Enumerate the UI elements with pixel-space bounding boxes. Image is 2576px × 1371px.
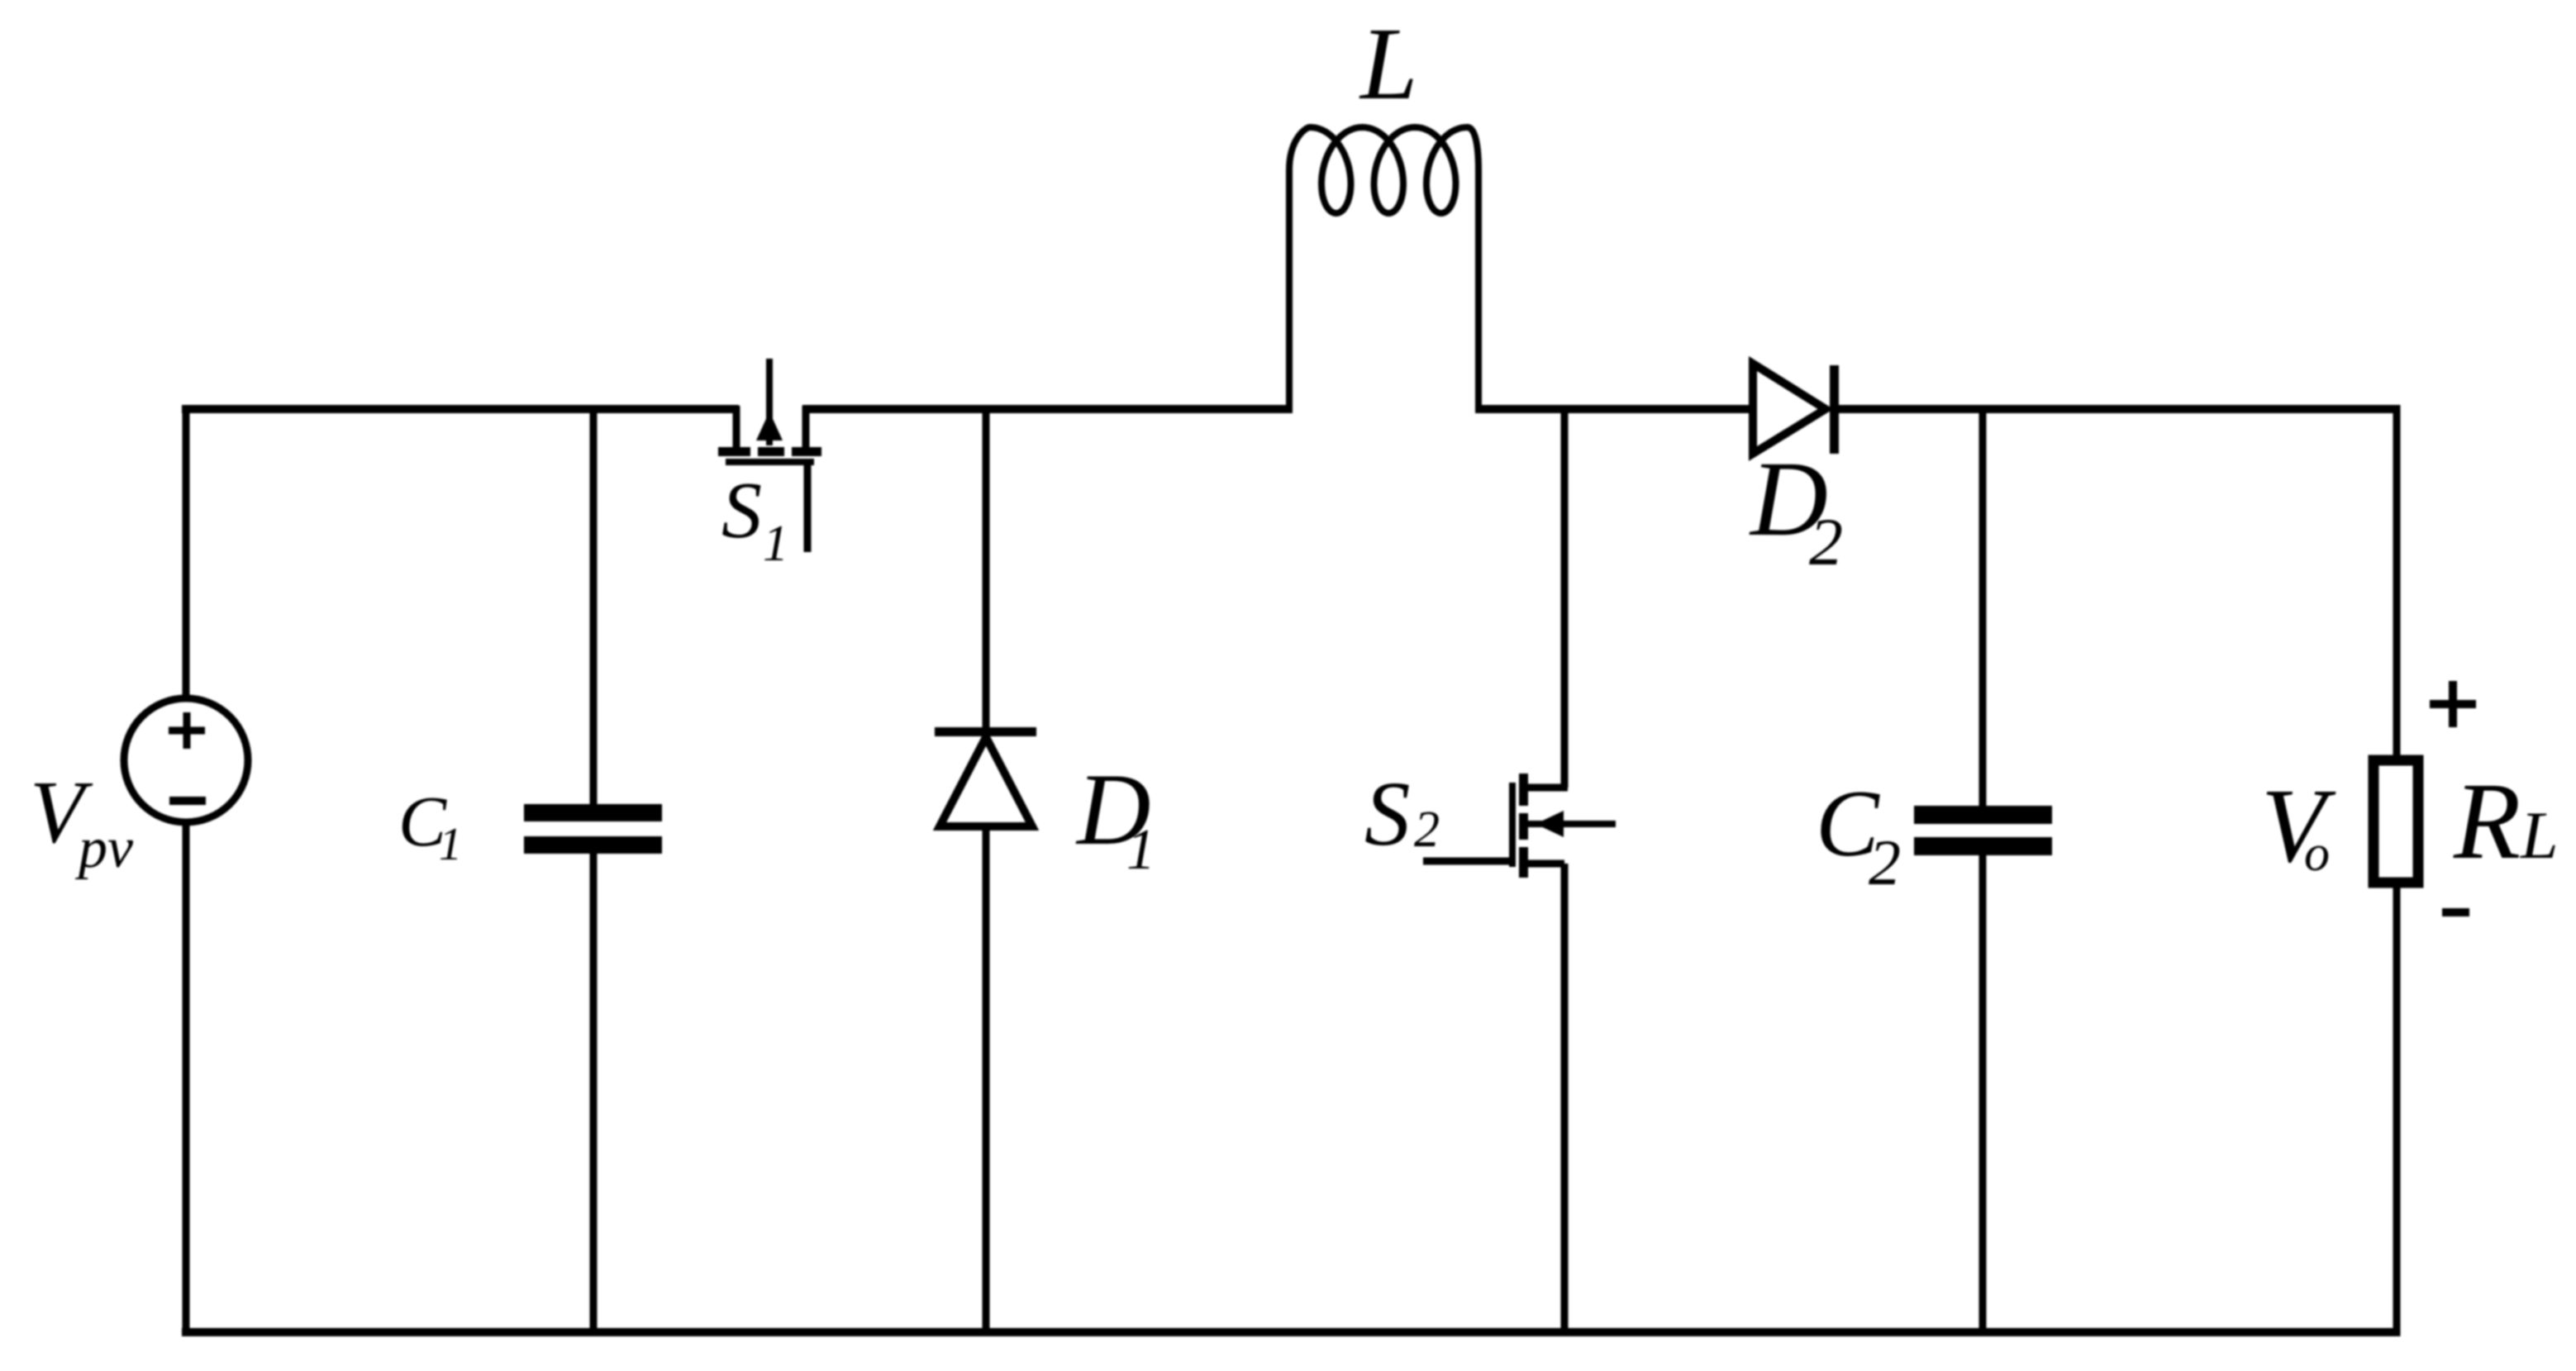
wire: C1 bottom lead to bottom rail <box>590 854 598 1336</box>
MOSFET S1 body arrow (points up) <box>756 412 783 440</box>
plus polarity mark at output <box>2430 681 2476 727</box>
diode D2 triangle (points right) <box>1753 364 1826 454</box>
svg-text:2: 2 <box>1869 826 1901 898</box>
diode D2 cathode bar <box>1830 365 1839 454</box>
wire: top rail segment from D2 cathode to output corner <box>1835 405 2397 413</box>
wire: top rail segment between inductor right leg and D2 anode <box>1477 405 1754 413</box>
wire: bottom return rail <box>182 1328 2397 1336</box>
inductor L (coil with three loops) <box>1289 127 1478 413</box>
svg-text:S: S <box>1364 764 1411 865</box>
label C2 <box>1816 771 1901 898</box>
wire: output branch bottom (load down to bottom rail corner) <box>2393 888 2401 1336</box>
MOSFET S2 channel bar (three segments) <box>1519 774 1528 878</box>
svg-text:o: o <box>2304 826 2330 882</box>
MOSFET S1 body stub line <box>766 359 773 445</box>
label D2 <box>1749 440 1843 579</box>
capacitor C2 (two plates) <box>1914 806 2052 855</box>
svg-text:pv: pv <box>74 816 134 880</box>
wire: C1 top lead from top rail <box>590 405 598 804</box>
MOSFET S1 gate bar <box>726 459 814 465</box>
label D1 <box>1075 753 1155 882</box>
plus polarity mark inside Vpv <box>169 712 205 749</box>
svg-text:L: L <box>2520 797 2559 873</box>
voltage source Vpv (circle) <box>124 698 248 822</box>
minus polarity mark at output <box>2442 908 2469 916</box>
wire: S2 source lead down to bottom rail <box>1561 864 1569 1336</box>
diode D1 triangle (points up) <box>940 737 1032 826</box>
wire: top rail, left segment (input node to S1 drain) <box>182 405 739 413</box>
MOSFET S2 gate lead <box>1423 858 1514 865</box>
svg-text:1: 1 <box>439 819 462 870</box>
minus polarity mark inside Vpv <box>169 797 206 805</box>
label Vpv <box>30 764 134 880</box>
MOSFET S2 source connector <box>1523 860 1564 868</box>
svg-text:1: 1 <box>1126 818 1155 882</box>
MOSFET S2 gate bar <box>1509 783 1516 867</box>
svg-text:2: 2 <box>1809 504 1843 579</box>
svg-text:2: 2 <box>1414 802 1440 858</box>
MOSFET S1 drain lead (left corner drop from top rail) <box>733 406 740 451</box>
diode D1 cathode bar <box>935 727 1036 736</box>
label C1 <box>398 781 462 870</box>
wire: S2 drain lead from top rail <box>1561 406 1569 788</box>
wire: top rail segment between S1 source and inductor left leg <box>802 405 1291 413</box>
MOSFET S2 drain connector <box>1523 784 1568 792</box>
MOSFET S1 channel bar (three segments) <box>718 447 821 456</box>
svg-text:L: L <box>1359 7 1418 121</box>
load resistor RL (rectangle) <box>2374 760 2418 883</box>
capacitor C1 (two plates) <box>524 804 662 854</box>
wire: output branch top (corner down to load) <box>2393 405 2401 755</box>
svg-text:S: S <box>721 466 762 555</box>
MOSFET S2 body arrow (points left) <box>1536 811 1564 837</box>
MOSFET S2 body stub line <box>1528 821 1616 827</box>
wire: C2 top lead from top rail <box>1979 405 1987 806</box>
label S1 <box>721 466 788 572</box>
MOSFET S1 gate lead <box>804 464 812 552</box>
wire: Vpv negative lead (circle down to bottom rail) <box>183 822 190 1336</box>
wire: C2 bottom lead to bottom rail <box>1979 855 1987 1336</box>
label RL <box>2453 759 2559 882</box>
wire: Vpv positive lead (top rail down to source circle) <box>183 405 190 699</box>
svg-text:1: 1 <box>763 516 788 572</box>
svg-text:R: R <box>2453 759 2521 882</box>
MOSFET S1 source lead (right corner drop from top rail) <box>802 406 810 451</box>
wire: D1 anode lead to bottom rail <box>983 826 990 1336</box>
label Vo <box>2261 767 2336 884</box>
wire: D1 cathode lead from top rail <box>983 405 990 727</box>
label S2 <box>1364 764 1440 865</box>
